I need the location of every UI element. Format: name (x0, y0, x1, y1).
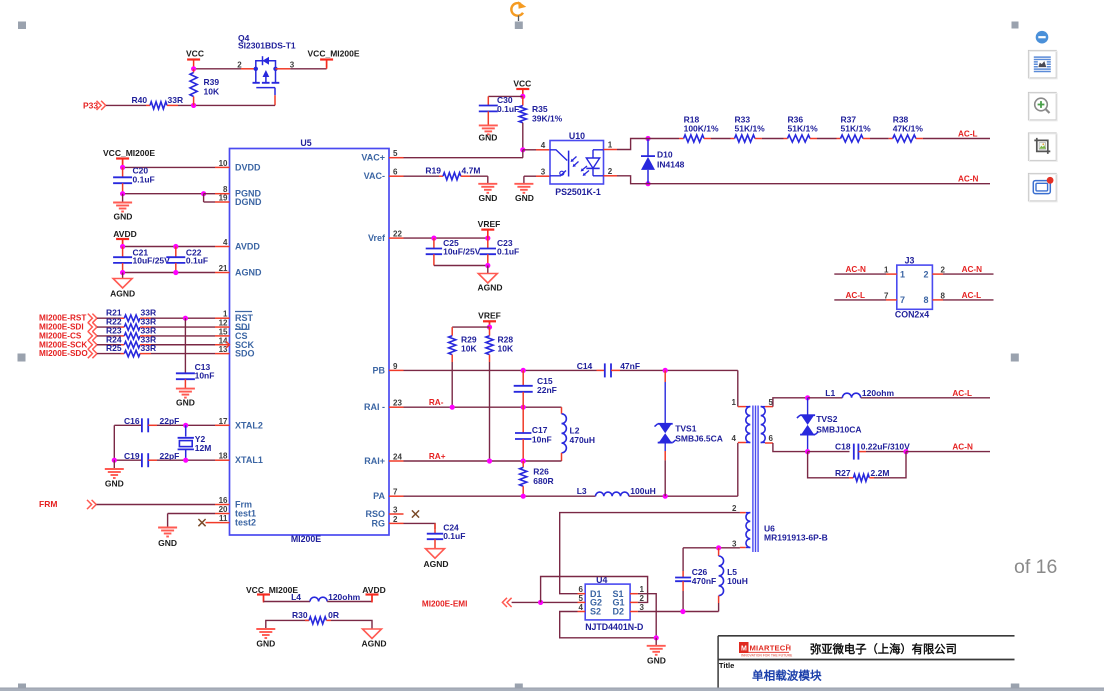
J3 row1 wires AC-N (834, 273, 886, 275)
svg-text:12M: 12M (195, 443, 212, 453)
svg-text:TVS1: TVS1 (675, 424, 697, 434)
transistor Q4 PMOS symbol (256, 61, 276, 69)
resistor R26 680R (522, 461, 524, 467)
crystal Y2 12M (185, 425, 187, 436)
toolbar buttons (1028, 50, 1056, 78)
pin 3 stub of Q4 (276, 68, 291, 70)
svg-text:4: 4 (541, 141, 546, 150)
svg-text:4: 4 (732, 434, 737, 443)
wire VCC to Q4 (194, 68, 241, 70)
ground GND under U4 (655, 638, 657, 646)
svg-text:3: 3 (640, 603, 645, 612)
ground AGND under C21 (122, 273, 124, 279)
svg-text:S2: S2 (590, 606, 601, 616)
svg-text:1: 1 (608, 141, 613, 150)
svg-text:DVDD: DVDD (235, 162, 261, 172)
wire node to U10 pin 4 (523, 149, 536, 151)
no-connect X on RSO pin 3 (412, 510, 419, 517)
svg-text:VREF: VREF (478, 219, 501, 229)
title block border (718, 635, 1014, 637)
wire to DVDD pin 10 (123, 166, 215, 168)
svg-text:22nF: 22nF (537, 385, 557, 395)
svg-text:16: 16 (219, 496, 228, 505)
svg-text:5: 5 (393, 149, 398, 158)
svg-text:4: 4 (579, 603, 584, 612)
transformer U6 left winding pins 1/4 (738, 406, 746, 408)
wire VCC to C30 (488, 95, 523, 97)
wire cap bottoms (434, 265, 488, 267)
svg-text:0.1uF: 0.1uF (133, 175, 155, 185)
svg-text:AVDD: AVDD (362, 585, 385, 595)
ground GND under C30 (479, 124, 498, 126)
svg-text:AVDD: AVDD (235, 242, 260, 252)
svg-text:2: 2 (393, 515, 398, 524)
resistor R33 51K/1% (731, 138, 735, 140)
svg-text:SDO: SDO (235, 349, 255, 359)
junction on RST line (183, 316, 188, 321)
svg-text:2.2M: 2.2M (871, 468, 890, 478)
wire G loop (G2-G1) (541, 577, 648, 603)
svg-text:C16: C16 (124, 416, 140, 426)
svg-text:弥亚微电子（上海）有限公司: 弥亚微电子（上海）有限公司 (810, 642, 957, 656)
svg-text:DGND: DGND (235, 197, 262, 207)
svg-text:C14: C14 (577, 361, 593, 371)
wire R40 to Q4 gate node (178, 104, 275, 106)
wire R23 to chip (151, 335, 215, 337)
resistor R35 39K/1% (522, 96, 524, 105)
pin 2 stub of Q4 (241, 68, 256, 70)
svg-text:VAC-: VAC- (364, 171, 385, 181)
svg-text:MI200E-SDI: MI200E-SDI (39, 323, 84, 332)
AC-N line (644, 183, 990, 185)
svg-text:RAI -: RAI - (364, 402, 385, 412)
svg-text:MR191913-6P-B: MR191913-6P-B (764, 533, 828, 543)
wire PB row (404, 369, 597, 371)
svg-text:FRM: FRM (39, 499, 57, 509)
inductor L5 10uH (718, 548, 720, 556)
svg-text:C18: C18 (835, 442, 851, 452)
svg-text:AGND: AGND (110, 289, 135, 299)
svg-text:IN4148: IN4148 (657, 160, 685, 170)
svg-text:AC-L: AC-L (958, 130, 978, 139)
wire RG to C24 (404, 523, 436, 529)
wire R19 to GND (470, 175, 488, 177)
svg-text:0.1uF: 0.1uF (186, 255, 208, 265)
svg-text:NJTD4401N-D: NJTD4401N-D (585, 622, 643, 632)
left vertical wire to GND (crystal) (113, 425, 115, 460)
U10 pin 1 stub (604, 149, 618, 151)
resistor R30 0R (266, 620, 309, 629)
svg-text:GND: GND (176, 398, 195, 408)
wire VAC+ from chip (404, 157, 524, 159)
svg-text:51K/1%: 51K/1% (841, 124, 872, 134)
AC-L resistor chain wire (644, 138, 679, 140)
svg-text:AC-L: AC-L (952, 389, 972, 398)
svg-text:MI200E-CS: MI200E-CS (39, 331, 82, 340)
svg-text:10nF: 10nF (195, 371, 215, 381)
capacitor C17 10nF (522, 407, 524, 433)
wire pin6 to AC-N out (773, 443, 806, 452)
op-amp U4 NJTD4401N-D body (585, 584, 630, 620)
svg-text:单相载波模块: 单相载波模块 (752, 669, 822, 683)
transformer U6 lower winding pins 2/3 (746, 512, 751, 514)
wire PA row (404, 495, 596, 497)
svg-text:1: 1 (900, 269, 905, 279)
wire P33 to R40 (106, 104, 146, 106)
svg-text:GND: GND (647, 656, 666, 666)
resistor R39 10K (193, 69, 195, 73)
svg-text:3: 3 (732, 539, 737, 548)
svg-text:VREF: VREF (478, 311, 501, 321)
toolbar icon zoom (1035, 98, 1048, 111)
svg-text:9: 9 (393, 362, 398, 371)
wire S2 to GND (560, 612, 657, 638)
svg-text:3: 3 (541, 167, 546, 176)
svg-text:P33: P33 (83, 101, 98, 111)
svg-text:13: 13 (219, 345, 228, 354)
svg-text:22: 22 (393, 230, 402, 239)
svg-text:AGND: AGND (477, 283, 502, 293)
wire Q4 to VCC_MI200E (290, 68, 326, 70)
svg-text:C19: C19 (124, 451, 140, 461)
selection handles (18, 22, 26, 30)
resistor R29 10K (451, 327, 453, 336)
svg-text:AC-N: AC-N (958, 175, 979, 184)
svg-text:0.22uF/310V: 0.22uF/310V (861, 442, 910, 452)
svg-text:GND: GND (479, 133, 498, 143)
diode D10 IN4148 (645, 136, 650, 141)
svg-text:of 16: of 16 (1014, 556, 1057, 578)
svg-text:7: 7 (884, 291, 889, 300)
resistor R27 2.2M (808, 452, 849, 478)
U10 pin 2 stub (604, 175, 618, 177)
resistor R40 33R (146, 104, 150, 106)
svg-text:M: M (741, 646, 747, 653)
toolbar minus button (1036, 31, 1049, 44)
svg-text:L2: L2 (570, 426, 580, 436)
svg-text:RAI+: RAI+ (364, 456, 385, 466)
svg-text:680R: 680R (533, 476, 553, 486)
resistor R19 4.7M (404, 175, 440, 177)
op-amp U5 MI200E chip body (230, 149, 390, 536)
U5 CS overline (235, 328, 248, 330)
svg-text:AGND: AGND (235, 268, 262, 278)
svg-text:MI200E-EMI: MI200E-EMI (422, 599, 468, 608)
TVS1 SMBJ6.5CA (664, 370, 666, 382)
svg-text:AC-N: AC-N (846, 265, 867, 274)
svg-text:U10: U10 (569, 131, 585, 141)
svg-text:R26: R26 (533, 466, 549, 476)
svg-text:23: 23 (393, 399, 402, 408)
svg-text:20: 20 (219, 505, 228, 514)
svg-text:33R: 33R (141, 343, 157, 353)
wire EMI to U4 G2 (512, 601, 578, 603)
svg-text:10: 10 (219, 159, 228, 168)
capacitor C20 0.1uF (122, 167, 124, 177)
svg-text:10uH: 10uH (727, 576, 748, 586)
svg-text:Title: Title (719, 661, 734, 670)
svg-text:33R: 33R (168, 95, 184, 105)
svg-text:J3: J3 (905, 255, 915, 265)
wire RST to C13 (184, 318, 186, 373)
svg-text:R35: R35 (532, 104, 548, 114)
wire XTAL1 row (114, 459, 142, 461)
wire pin3 node (683, 547, 740, 549)
svg-text:470nF: 470nF (692, 576, 717, 586)
svg-text:1: 1 (884, 266, 889, 275)
ground GND under R19 (478, 183, 497, 185)
svg-text:2: 2 (923, 269, 928, 279)
wire XTAL2 row (114, 424, 142, 426)
svg-text:SI2301BDS-T1: SI2301BDS-T1 (238, 41, 296, 51)
svg-text:39K/1%: 39K/1% (532, 114, 563, 124)
ground GND under test1 (158, 527, 177, 529)
capacitor C25 10uF/25V (433, 238, 435, 248)
wire pin2 to AC-N line (617, 176, 644, 184)
svg-text:0.1uF: 0.1uF (497, 104, 519, 114)
svg-text:2: 2 (732, 504, 737, 513)
svg-text:100K/1%: 100K/1% (684, 124, 719, 134)
svg-text:120ohm: 120ohm (328, 592, 361, 602)
no-connect X on test2 pin 11 (206, 522, 216, 524)
svg-text:RA+: RA+ (429, 452, 446, 461)
toolbar icon window (1033, 181, 1050, 194)
svg-text:AC-L: AC-L (846, 291, 866, 300)
transformer U6 right winding pins 5/6 (761, 406, 765, 408)
svg-text:RG: RG (372, 518, 386, 528)
svg-text:D2: D2 (613, 606, 625, 616)
rotation handle (511, 3, 523, 16)
resistor R23 33R (97, 335, 121, 337)
svg-text:TVS2: TVS2 (816, 414, 838, 424)
svg-text:U5: U5 (300, 138, 311, 148)
svg-text:100uH: 100uH (630, 486, 656, 496)
svg-text:6: 6 (393, 168, 398, 177)
gate wire of Q4 (256, 87, 275, 89)
svg-text:10K: 10K (204, 87, 220, 97)
wire to PGND/DGND pins (123, 193, 204, 195)
wire test1 to GND (168, 513, 215, 515)
wire pin2 to U4 D1 (560, 513, 740, 594)
svg-text:4.7M: 4.7M (462, 166, 481, 176)
svg-text:AVDD: AVDD (113, 229, 136, 239)
wire pin5 to AC-L out (773, 398, 806, 407)
U5 RST overline (235, 311, 252, 313)
svg-text:PA: PA (373, 491, 385, 501)
U5 SCK pin arrow (226, 342, 230, 349)
svg-text:GND: GND (158, 538, 177, 548)
svg-text:XTAL1: XTAL1 (235, 455, 263, 465)
svg-text:0R: 0R (328, 610, 339, 620)
svg-text:2: 2 (941, 266, 946, 275)
svg-text:VCC: VCC (186, 49, 204, 59)
svg-text:MI200E-RST: MI200E-RST (39, 314, 86, 323)
wire PA to transformer pin4 (665, 495, 738, 497)
svg-text:AC-N: AC-N (962, 265, 983, 274)
svg-text:GND: GND (256, 638, 275, 648)
wire VREF to R29/R28 tops (452, 326, 489, 328)
wire R22 to chip (151, 326, 215, 328)
svg-text:24: 24 (393, 453, 402, 462)
svg-text:VAC+: VAC+ (361, 153, 385, 163)
capacitor C23 0.1uF (487, 238, 489, 248)
J3 row2 wires AC-L (834, 299, 886, 301)
bottom window bar (0, 688, 1104, 691)
svg-text:7: 7 (393, 488, 398, 497)
svg-text:51K/1%: 51K/1% (788, 124, 819, 134)
wire R25 to chip (151, 353, 215, 355)
wire C18 to AC-N (906, 451, 990, 453)
ground AGND under C23 (487, 266, 489, 274)
capacitor C26 470nF (682, 548, 684, 571)
svg-text:test2: test2 (235, 518, 256, 528)
inductor L2 470uH (561, 407, 563, 414)
U10 photodiode arrows (572, 157, 577, 162)
ground AGND under R30 (363, 629, 382, 639)
svg-text:3: 3 (393, 506, 398, 515)
svg-text:1: 1 (223, 310, 228, 319)
svg-text:Vref: Vref (368, 233, 386, 243)
resistor R22 33R (97, 326, 121, 328)
net label AC-L (top right) (923, 138, 990, 140)
resistor R25 33R (97, 353, 121, 355)
ground GND under R30 (256, 628, 275, 630)
capacitor C24 0.1uF (434, 523, 436, 533)
svg-text:R25: R25 (106, 343, 122, 353)
svg-text:47K/1%: 47K/1% (893, 124, 924, 134)
svg-text:L4: L4 (291, 592, 301, 602)
inductor L1 120ohm (808, 397, 843, 399)
svg-text:GND: GND (515, 193, 534, 203)
U10 LED arrows (582, 166, 588, 171)
svg-text:11: 11 (219, 514, 228, 523)
svg-text:RA-: RA- (429, 398, 444, 407)
svg-text:AC-N: AC-N (952, 442, 973, 451)
svg-text:INNOVATION FOR THE FUTURE: INNOVATION FOR THE FUTURE (741, 654, 793, 658)
svg-text:10K: 10K (461, 344, 477, 354)
svg-text:R27: R27 (835, 468, 851, 478)
svg-text:VCC: VCC (513, 78, 531, 88)
wire S1 to GND (638, 594, 656, 638)
wire L1 to AC-L (861, 397, 990, 399)
svg-text:R19: R19 (425, 166, 441, 176)
capacitor C18 0.22uF/310V (808, 451, 850, 453)
svg-text:VCC_MI200E: VCC_MI200E (308, 49, 360, 59)
svg-text:19: 19 (219, 194, 228, 203)
svg-text:6: 6 (769, 434, 774, 443)
svg-text:0.1uF: 0.1uF (497, 247, 519, 257)
svg-text:22pF: 22pF (160, 416, 180, 426)
toolbar icon crop (1037, 138, 1051, 152)
wire AGND row to pin 21 (123, 272, 215, 274)
connector J3 CON2x4 body (897, 265, 933, 309)
svg-text:PB: PB (372, 365, 385, 375)
svg-text:SMBJ6.5CA: SMBJ6.5CA (675, 434, 723, 444)
svg-text:R39: R39 (204, 77, 220, 87)
svg-text:470uH: 470uH (570, 435, 596, 445)
svg-text:MI200E-SDO: MI200E-SDO (39, 349, 88, 358)
resistor R37 51K/1% (837, 138, 841, 140)
svg-text:5: 5 (579, 594, 584, 603)
svg-text:GND: GND (479, 193, 498, 203)
wire R24 to chip (151, 344, 215, 346)
wire Vref pin 22 (404, 237, 488, 239)
ground AGND under C24 (426, 549, 445, 559)
svg-text:12: 12 (219, 319, 228, 328)
resistor R28 10K (489, 327, 491, 336)
svg-text:AGND: AGND (361, 638, 386, 648)
svg-text:L3: L3 (577, 486, 587, 496)
logo MIARTECH (739, 642, 749, 653)
svg-text:8: 8 (941, 291, 946, 300)
svg-text:18: 18 (219, 452, 228, 461)
capacitor C21 10uF/25V (122, 247, 124, 258)
svg-text:PS2501K-1: PS2501K-1 (555, 187, 601, 197)
svg-text:™: ™ (786, 643, 790, 648)
svg-text:14: 14 (219, 336, 228, 345)
transformer U6 core (752, 406, 754, 553)
svg-text:15: 15 (219, 327, 228, 336)
svg-text:47nF: 47nF (620, 361, 640, 371)
svg-text:R40: R40 (132, 95, 148, 105)
svg-text:SMBJ10CA: SMBJ10CA (816, 425, 861, 435)
svg-text:R30: R30 (292, 610, 308, 620)
ground GND under C20 (122, 194, 124, 203)
svg-text:L1: L1 (825, 388, 835, 398)
svg-text:120ohm: 120ohm (862, 388, 895, 398)
svg-text:2: 2 (640, 594, 645, 603)
resistor R24 33R (97, 344, 121, 346)
svg-text:1: 1 (640, 585, 645, 594)
toolbar icon wrap-text (1034, 56, 1051, 58)
svg-text:51K/1%: 51K/1% (735, 124, 766, 134)
svg-text:AC-L: AC-L (962, 291, 982, 300)
svg-text:CON2x4: CON2x4 (895, 309, 929, 319)
svg-text:GND: GND (105, 479, 124, 489)
wire U10 pin 3 to GND (524, 175, 536, 177)
svg-text:AGND: AGND (423, 559, 448, 569)
TVS2 SMBJ10CA (807, 398, 809, 415)
U4 pin stubs (578, 593, 586, 595)
capacitor C30 0.1uF (487, 96, 489, 105)
svg-text:17: 17 (219, 417, 228, 426)
svg-text:7: 7 (900, 295, 905, 305)
svg-text:0.1uF: 0.1uF (443, 531, 465, 541)
wire FRM to pin 16 (97, 504, 216, 506)
U5 left pin stubs (215, 166, 230, 168)
svg-text:MI200E: MI200E (291, 534, 321, 544)
ground GND under U10 pin3 (514, 183, 533, 185)
resistor R18 100K/1% (679, 138, 684, 140)
svg-text:GND: GND (114, 212, 133, 222)
svg-text:10uF/25V: 10uF/25V (443, 247, 481, 257)
wire R35 to VAC+ node (522, 123, 524, 150)
U10 LED (593, 149, 604, 151)
svg-text:XTAL2: XTAL2 (235, 420, 263, 430)
svg-text:21: 21 (219, 264, 228, 273)
resistor R21 33R (97, 317, 121, 319)
wire R21 to chip (151, 317, 215, 319)
svg-text:10K: 10K (498, 344, 514, 354)
svg-text:4: 4 (223, 238, 228, 247)
wire AVDD to pin 4 (123, 246, 215, 248)
inductor L4 120ohm (264, 601, 311, 603)
svg-text:1: 1 (732, 398, 737, 407)
svg-text:2: 2 (608, 167, 613, 176)
svg-text:10nF: 10nF (532, 434, 552, 444)
svg-text:6: 6 (579, 585, 584, 594)
svg-text:D10: D10 (657, 150, 673, 160)
